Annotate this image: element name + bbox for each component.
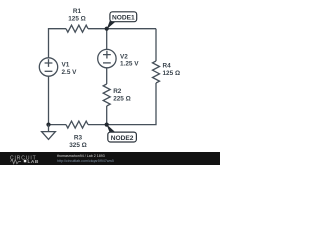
resistor R1 [66,25,88,32]
node NODE2 junction dot [105,123,109,127]
svg-text:125 Ω: 125 Ω [163,70,181,77]
svg-text:1.25 V: 1.25 V [120,61,139,68]
wire NODE1 junction down to V2 [106,29,108,50]
svg-text:R4: R4 [163,62,172,69]
wire ground junction to R3 [49,124,67,126]
ground [42,125,56,140]
svg-text:V1: V1 [62,62,70,69]
wire right branch down to R4 [155,29,157,61]
svg-text:NODE2: NODE2 [111,135,134,142]
net flag NODE2 [107,124,137,142]
CircuitLab logo [10,155,39,165]
svg-text:V2: V2 [120,53,128,60]
svg-text:2.5 V: 2.5 V [62,69,78,76]
voltage source V2 [98,49,116,67]
voltage source V1 [39,58,57,76]
ground junction dot [46,123,50,127]
resistor R4 [153,61,160,83]
svg-text:R2: R2 [113,88,122,95]
svg-text:325 Ω: 325 Ω [69,142,87,149]
wire top-left segment from V1 branch to R1 [49,29,67,58]
svg-text:LAB: LAB [28,159,39,165]
svg-text:http://circuitlab.com/ckqar5f9: http://circuitlab.com/ckqar5f947ww5 [57,159,114,163]
svg-text:225 Ω: 225 Ω [113,95,131,102]
svg-text:125 Ω: 125 Ω [68,15,86,22]
wire V1 bottom to ground junction [48,76,50,124]
resistor R3 [66,121,88,128]
resistor R2 [103,84,110,106]
wire R3 to NODE2 junction [88,124,107,126]
svg-text:NODE1: NODE1 [112,15,135,22]
svg-text:R3: R3 [74,135,83,142]
svg-text:thomasmahon94 / Lab 2 1893: thomasmahon94 / Lab 2 1893 [57,154,105,158]
wire from R1 to NODE1 junction and on to right corner [88,28,156,30]
wire V2 bottom to R2 [106,68,108,84]
node NODE1 junction dot [105,27,109,31]
footer bar [0,152,220,165]
wire R4 bottom to bottom-right corner [107,83,156,125]
net flag NODE1 [107,12,137,29]
svg-text:R1: R1 [73,8,82,15]
wire R2 bottom to NODE2 junction [106,106,108,125]
